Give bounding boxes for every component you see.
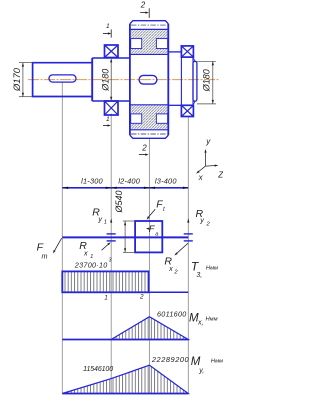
svg-text:T: T [191, 259, 200, 273]
svg-text:23700·10: 23700·10 [74, 260, 108, 269]
svg-text:x,: x, [197, 319, 204, 326]
svg-text:2: 2 [206, 222, 211, 228]
svg-text:l3-400: l3-400 [155, 176, 177, 185]
svg-text:22289200: 22289200 [151, 355, 190, 364]
svg-text:Нмм: Нмм [211, 358, 223, 364]
svg-text:1: 1 [90, 254, 93, 260]
svg-text:x: x [83, 248, 88, 257]
svg-text:Нмм: Нмм [206, 265, 218, 271]
svg-text:3: 3 [109, 257, 112, 263]
svg-text:M: M [191, 356, 201, 368]
svg-text:y: y [205, 137, 211, 146]
svg-text:y: y [199, 215, 204, 224]
svg-text:Z: Z [217, 170, 223, 179]
svg-text:x: x [168, 264, 173, 273]
svg-text:1: 1 [106, 23, 110, 30]
svg-text:Ø170: Ø170 [11, 67, 22, 92]
svg-text:1: 1 [104, 294, 108, 301]
svg-text:l2-400: l2-400 [118, 176, 140, 185]
svg-text:Ø180: Ø180 [101, 69, 111, 92]
svg-text:y,: y, [198, 367, 204, 374]
svg-text:t: t [163, 206, 165, 213]
svg-text:6011600: 6011600 [157, 309, 187, 318]
svg-text:2: 2 [139, 293, 144, 300]
svg-text:y: y [97, 214, 102, 223]
svg-text:3,: 3, [196, 272, 202, 279]
svg-text:11546100: 11546100 [83, 366, 113, 373]
svg-text:Ø540: Ø540 [114, 190, 124, 213]
svg-text:1: 1 [106, 116, 110, 123]
svg-text:Нмм: Нмм [206, 316, 218, 322]
svg-text:2: 2 [141, 143, 147, 152]
svg-text:2: 2 [140, 1, 146, 10]
svg-text:Ø180: Ø180 [202, 69, 212, 92]
svg-text:l1-300: l1-300 [81, 176, 103, 185]
svg-text:x: x [198, 173, 204, 182]
svg-text:2: 2 [173, 270, 178, 276]
svg-text:1: 1 [104, 220, 107, 226]
svg-text:m: m [42, 252, 48, 261]
